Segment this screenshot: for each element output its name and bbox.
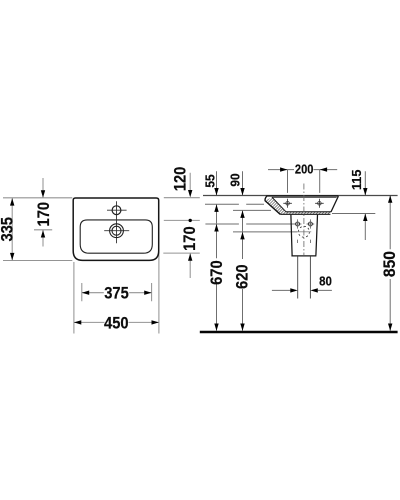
svg-text:55: 55 [202, 174, 217, 187]
svg-text:120: 120 [172, 167, 190, 192]
svg-text:670: 670 [208, 260, 226, 285]
svg-text:620: 620 [234, 264, 252, 289]
svg-text:170: 170 [35, 202, 53, 227]
svg-text:170: 170 [181, 226, 199, 251]
svg-text:115: 115 [349, 170, 364, 191]
svg-text:375: 375 [104, 285, 129, 303]
svg-text:90: 90 [228, 173, 243, 186]
svg-text:80: 80 [319, 273, 332, 288]
svg-text:200: 200 [295, 162, 314, 177]
svg-text:335: 335 [0, 217, 17, 242]
svg-text:450: 450 [104, 314, 129, 332]
svg-text:850: 850 [381, 251, 399, 277]
